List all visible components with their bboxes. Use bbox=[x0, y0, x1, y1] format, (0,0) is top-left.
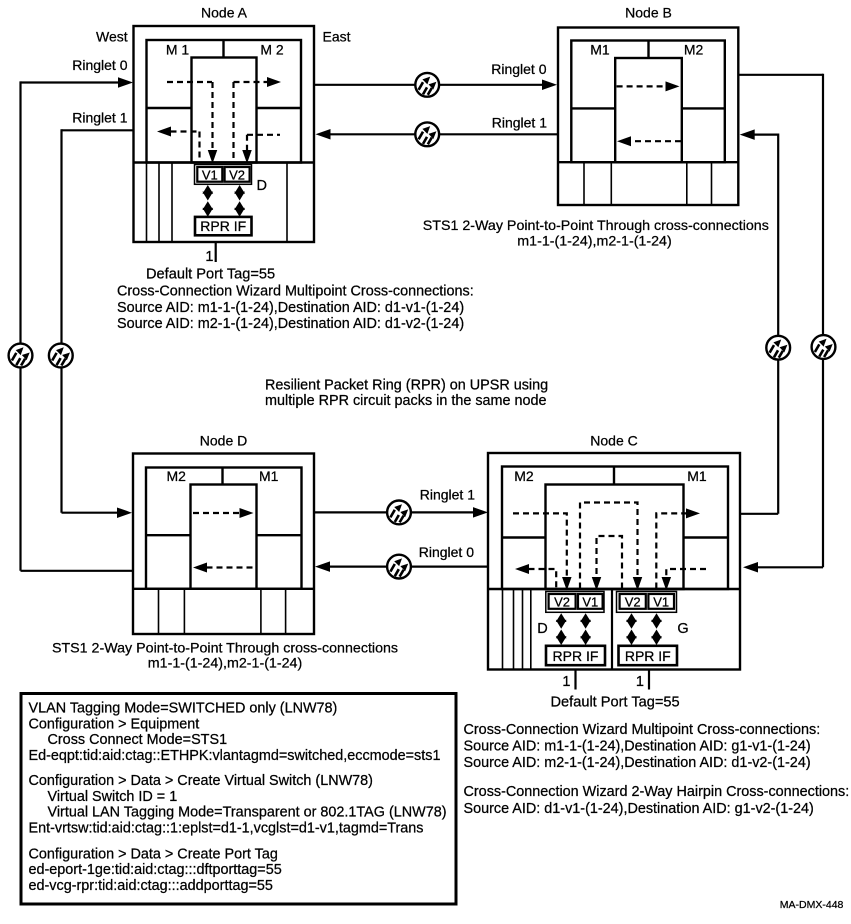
svg-text:Node D: Node D bbox=[200, 432, 247, 448]
svg-text:ed-eport-1ge:tid:aid:ctag:::df: ed-eport-1ge:tid:aid:ctag:::dftporttag=5… bbox=[29, 862, 282, 878]
svg-text:Configuration > Equipment: Configuration > Equipment bbox=[29, 716, 200, 732]
svg-text:1: 1 bbox=[562, 674, 570, 690]
svg-text:Ent-vrtsw:tid:aid:ctag::1:epls: Ent-vrtsw:tid:aid:ctag::1:eplst=d1-1,vcg… bbox=[29, 820, 424, 836]
svg-text:M1: M1 bbox=[259, 468, 279, 484]
svg-text:West: West bbox=[96, 29, 128, 45]
svg-text:Ringlet 1: Ringlet 1 bbox=[420, 487, 475, 503]
svg-text:Node C: Node C bbox=[590, 432, 637, 448]
svg-text:1: 1 bbox=[205, 249, 213, 265]
svg-text:M2: M2 bbox=[684, 41, 704, 57]
svg-text:V1: V1 bbox=[202, 167, 218, 182]
svg-text:Source AID: d1-v1-(1-24),Desti: Source AID: d1-v1-(1-24),Destination AID… bbox=[464, 801, 814, 817]
svg-text:Virtual Switch ID = 1: Virtual Switch ID = 1 bbox=[48, 789, 178, 805]
svg-text:VLAN Tagging Mode=SWITCHED onl: VLAN Tagging Mode=SWITCHED only (LNW78) bbox=[29, 701, 338, 717]
svg-text:Default Port Tag=55: Default Port Tag=55 bbox=[551, 694, 680, 710]
svg-text:RPR IF: RPR IF bbox=[200, 218, 246, 234]
svg-text:M1: M1 bbox=[590, 41, 610, 57]
svg-text:Source AID: m2-1-(1-24),Destin: Source AID: m2-1-(1-24),Destination AID:… bbox=[464, 755, 811, 771]
svg-text:MA-DMX-448: MA-DMX-448 bbox=[780, 899, 844, 911]
svg-text:Cross-Connection Wizard Multip: Cross-Connection Wizard Multipoint Cross… bbox=[464, 722, 821, 738]
svg-text:Resilient Packet Ring (RPR) on: Resilient Packet Ring (RPR) on UPSR usin… bbox=[265, 378, 548, 394]
svg-text:1: 1 bbox=[636, 674, 644, 690]
svg-text:Source AID: m1-1-(1-24),Destin: Source AID: m1-1-(1-24),Destination AID:… bbox=[117, 300, 464, 316]
svg-text:M 1: M 1 bbox=[166, 41, 190, 57]
svg-text:Ringlet 0: Ringlet 0 bbox=[491, 61, 546, 77]
svg-text:M 2: M 2 bbox=[260, 41, 284, 57]
svg-text:Source AID: m1-1-(1-24),Destin: Source AID: m1-1-(1-24),Destination AID:… bbox=[464, 739, 811, 755]
svg-text:multiple RPR circuit packs in: multiple RPR circuit packs in the same n… bbox=[265, 393, 547, 409]
svg-text:V2: V2 bbox=[625, 594, 641, 609]
svg-text:D: D bbox=[257, 178, 267, 194]
svg-text:M2: M2 bbox=[166, 468, 186, 484]
svg-text:STS1 2-Way Point-to-Point Thro: STS1 2-Way Point-to-Point Through cross-… bbox=[52, 641, 398, 657]
svg-text:m1-1-(1-24),m2-1-(1-24): m1-1-(1-24),m2-1-(1-24) bbox=[148, 655, 302, 671]
svg-text:ed-vcg-rpr:tid:aid:ctag:::addp: ed-vcg-rpr:tid:aid:ctag:::addporttag=55 bbox=[29, 878, 273, 894]
svg-text:RPR IF: RPR IF bbox=[553, 648, 599, 664]
svg-text:Virtual LAN Tagging Mode=Trans: Virtual LAN Tagging Mode=Transparent or … bbox=[48, 805, 447, 821]
svg-text:V1: V1 bbox=[653, 594, 669, 609]
svg-text:Default Port Tag=55: Default Port Tag=55 bbox=[146, 267, 275, 283]
svg-text:D: D bbox=[537, 621, 547, 637]
svg-text:M2: M2 bbox=[514, 468, 534, 484]
svg-text:Cross-Connection Wizard 2-Way: Cross-Connection Wizard 2-Way Hairpin Cr… bbox=[464, 784, 850, 800]
svg-text:V2: V2 bbox=[554, 594, 570, 609]
svg-text:East: East bbox=[323, 29, 351, 45]
svg-text:STS1 2-Way Point-to-Point Thro: STS1 2-Way Point-to-Point Through cross-… bbox=[423, 218, 769, 234]
svg-text:RPR IF: RPR IF bbox=[625, 648, 671, 664]
svg-text:Node B: Node B bbox=[625, 5, 672, 21]
svg-text:Ringlet 1: Ringlet 1 bbox=[72, 110, 127, 126]
svg-text:m1-1-(1-24),m2-1-(1-24): m1-1-(1-24),m2-1-(1-24) bbox=[517, 233, 671, 249]
svg-text:Ringlet 0: Ringlet 0 bbox=[72, 57, 127, 73]
svg-text:Ringlet 0: Ringlet 0 bbox=[419, 544, 474, 560]
svg-text:G: G bbox=[677, 621, 688, 637]
svg-text:Configuration > Data > Create: Configuration > Data > Create Virtual Sw… bbox=[29, 773, 373, 789]
svg-text:M1: M1 bbox=[687, 468, 707, 484]
svg-text:Configuration > Data > Create: Configuration > Data > Create Port Tag bbox=[29, 846, 278, 862]
svg-text:Ed-eqpt:tid:aid:ctag::ETHPK:vl: Ed-eqpt:tid:aid:ctag::ETHPK:vlantagmd=sw… bbox=[29, 748, 441, 764]
svg-text:V1: V1 bbox=[582, 594, 598, 609]
svg-text:Ringlet 1: Ringlet 1 bbox=[492, 114, 547, 130]
svg-text:V2: V2 bbox=[229, 167, 245, 182]
svg-text:Cross Connect Mode=STS1: Cross Connect Mode=STS1 bbox=[48, 732, 228, 748]
svg-text:Node A: Node A bbox=[201, 5, 248, 21]
svg-text:Cross-Connection Wizard Multip: Cross-Connection Wizard Multipoint Cross… bbox=[117, 284, 474, 300]
svg-text:Source AID: m2-1-(1-24),Destin: Source AID: m2-1-(1-24),Destination AID:… bbox=[117, 316, 464, 332]
